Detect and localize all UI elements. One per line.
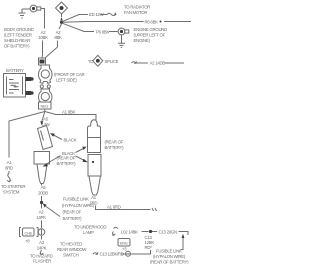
svg-text:R6 8BK: R6 8BK — [145, 20, 159, 25]
svg-text:BATTERY): BATTERY) — [105, 145, 125, 150]
connector inline (circle) — [38, 229, 45, 236]
wire bolt to corner, down — [41, 9, 45, 29]
label ENGINE GROUND — [134, 27, 168, 43]
svg-text:A1 8BK: A1 8BK — [62, 110, 75, 115]
label A2 14PK — [36, 210, 46, 221]
svg-text:(REAR OF: (REAR OF — [63, 210, 82, 215]
splice reference (TO SPLICE diamond) — [88, 55, 119, 66]
wire junction to left connector — [42, 112, 45, 122]
label A5 20DB — [38, 185, 48, 196]
wire to fusible link tick — [131, 250, 150, 254]
svg-text:CHE: CHE — [25, 231, 33, 236]
svg-text:ENGINE GROUND: ENGINE GROUND — [134, 27, 168, 32]
svg-text:FUSIBLE LINK: FUSIBLE LINK — [156, 249, 182, 254]
svg-text:TO HEATED: TO HEATED — [60, 242, 82, 247]
wire label A2 8BK — [54, 30, 62, 40]
wire C13 12BK/RD — [122, 253, 125, 255]
label A5 14W — [41, 117, 50, 128]
label REAR OF BATTERY (right) — [105, 140, 125, 151]
connector right male — [88, 155, 101, 196]
wire L02 14BK with break arrow — [112, 227, 118, 235]
bolt (body ground screw) — [30, 5, 41, 12]
wire R6 8BK to edge — [164, 21, 191, 23]
connector box CHE +8 — [20, 228, 39, 244]
connector left male — [34, 152, 50, 184]
svg-text:TO STARTER: TO STARTER — [1, 184, 25, 189]
svg-text:SWITCH: SWITCH — [63, 253, 79, 258]
label FRONT OF CAR — [54, 72, 84, 83]
clamp feet circles — [40, 85, 43, 88]
svg-text:BODY GROUND: BODY GROUND — [4, 27, 34, 32]
svg-text:BATTERY): BATTERY) — [57, 161, 77, 166]
svg-text:BLACK: BLACK — [62, 151, 75, 156]
label C13 12BK RD — [145, 235, 155, 250]
svg-text:SPLICE: SPLICE — [105, 59, 119, 64]
svg-text:BATTERY): BATTERY) — [63, 216, 83, 221]
label A3 14PK — [37, 240, 47, 251]
wire down to connector CHE — [41, 204, 43, 228]
label NEG terminal box — [39, 102, 52, 109]
wire A1 8BK — [45, 112, 96, 121]
svg-text:REAR WINDOW: REAR WINDOW — [57, 247, 87, 252]
label FUSIBLE LINK (right) — [150, 249, 189, 264]
label A1 6RD (starter wire) — [5, 160, 13, 171]
svg-text:20DB: 20DB — [38, 191, 48, 196]
pointer fusible link — [46, 207, 60, 217]
label BLACK upper with arrows — [50, 133, 77, 142]
svg-text:(REAR OF: (REAR OF — [105, 140, 124, 145]
connector box ENG +3 — [118, 239, 130, 252]
svg-text:14PK: 14PK — [36, 215, 46, 220]
wire ED 12W — [62, 15, 88, 22]
wire label A2 10BK — [38, 30, 48, 40]
clamp positive (upper battery clamp) — [39, 65, 53, 88]
wire break arrow to radiator fan — [101, 13, 116, 16]
ground (engine ground symbol) — [118, 35, 125, 48]
clamp stud (ground wires attach) — [39, 58, 46, 65]
wire A2 8BK down to clamp stud — [45, 24, 62, 58]
svg-text:OF BATTERY): OF BATTERY) — [4, 44, 30, 49]
wire break arrow from heated rear window — [93, 252, 98, 254]
wire P6 8BK — [62, 23, 94, 31]
svg-text:BLACK: BLACK — [64, 138, 77, 143]
node junction at NEG clamp — [44, 109, 46, 112]
svg-text:C13 20GN: C13 20GN — [159, 230, 177, 235]
wire A1 6RD with break — [106, 208, 157, 211]
svg-text:(UPPER LEFT OF: (UPPER LEFT OF — [134, 33, 166, 38]
svg-text:LEFT SIDE): LEFT SIDE) — [56, 78, 77, 83]
ground (body ground symbol) — [19, 9, 26, 18]
svg-text:FAN MOTOR: FAN MOTOR — [124, 10, 147, 15]
connector inline ENG — [126, 251, 131, 256]
label TO HEATED REAR WINDOW SWITCH — [57, 242, 87, 258]
svg-text:8BK: 8BK — [54, 35, 62, 40]
label TO RADIATOR FAN MOTOR — [124, 5, 150, 16]
svg-text:L02 14BK: L02 14BK — [121, 230, 138, 235]
pointer arrow fusible link (right) — [181, 237, 184, 250]
svg-text:(HYPALON WIRE): (HYPALON WIRE) — [153, 254, 186, 259]
wire + break arrow to hazard flasher — [40, 236, 44, 255]
arrow splice to junction — [61, 14, 63, 17]
battery — [4, 74, 34, 98]
label A1 6RD under right connector — [90, 195, 98, 206]
connector left female (rear of battery) — [38, 126, 53, 150]
svg-text:SHIELD-REAR: SHIELD-REAR — [4, 38, 30, 43]
battery post lower — [26, 91, 32, 95]
svg-text:C13 12BK/RD: C13 12BK/RD — [100, 252, 124, 257]
bolt (engine ground screw) — [118, 28, 129, 35]
wire resume + break arrow down — [7, 171, 11, 182]
label BODY GROUND — [4, 27, 34, 49]
wire A2 14DB with break arrow — [132, 61, 149, 63]
svg-text:(HYPALON WIRE): (HYPALON WIRE) — [62, 203, 95, 208]
svg-text:(FRONT OF CAR: (FRONT OF CAR — [54, 72, 84, 77]
svg-text:10BK: 10BK — [38, 35, 48, 40]
wire body-ground to bolt — [22, 8, 30, 10]
wire A1 6RD corner to right — [96, 206, 107, 210]
svg-text:LAMP: LAMP — [83, 230, 94, 235]
wire to engine ground bolt — [109, 31, 118, 33]
svg-text:(LEFT FENDER: (LEFT FENDER — [4, 33, 32, 38]
wire C13 20GN — [152, 231, 157, 233]
svg-text:6RD: 6RD — [5, 166, 13, 171]
battery post upper — [26, 77, 32, 81]
wire left connector down — [41, 184, 43, 202]
svg-text:RD*: RD* — [145, 245, 153, 250]
connector right female (rear of battery) — [88, 120, 101, 153]
wire to starter (left edge) — [9, 112, 45, 158]
svg-text:SYSTEM: SYSTEM — [3, 190, 20, 195]
label FUSIBLE LINK (HYPALON WIRE) REAR OF BATTERY — [62, 197, 95, 222]
node junction under splice — [60, 21, 63, 24]
node fusible link junction — [40, 201, 43, 204]
wire A2 10BK down to clamp stud — [41, 41, 44, 59]
svg-text:FLASHER: FLASHER — [33, 259, 51, 264]
node C13 junction — [149, 230, 152, 233]
svg-text:14PK: 14PK — [37, 246, 47, 251]
label TO UNDERHOOD LAMP — [74, 225, 106, 236]
label TO STARTER SYSTEM — [1, 184, 25, 195]
label TO HAZARD FLASHER — [30, 254, 53, 264]
wire R6 8BK — [63, 21, 144, 24]
svg-text:TO UNDERHOOD: TO UNDERHOOD — [74, 225, 106, 230]
label BLACK lower with arrows — [43, 147, 88, 167]
label REAR OF BATTERY (left) — [57, 156, 77, 167]
svg-text:ENGINE): ENGINE) — [134, 38, 151, 43]
svg-text:P6 8BK: P6 8BK — [96, 30, 109, 35]
svg-text:A2 14DB: A2 14DB — [150, 61, 166, 66]
svg-text:ENG: ENG — [120, 242, 128, 246]
svg-text:TO RADIATOR: TO RADIATOR — [124, 5, 150, 10]
svg-text:(REAR OF BATTERY): (REAR OF BATTERY) — [150, 260, 189, 264]
splice A2 (diamond) — [56, 2, 68, 14]
svg-text:NEG: NEG — [41, 104, 49, 109]
svg-text:A1 6RD: A1 6RD — [107, 205, 121, 210]
svg-text:FUSIBLE LINK: FUSIBLE LINK — [63, 197, 89, 202]
svg-text:BATTERY: BATTERY — [6, 68, 24, 73]
clamp negative (lower battery clamp) — [39, 89, 53, 104]
